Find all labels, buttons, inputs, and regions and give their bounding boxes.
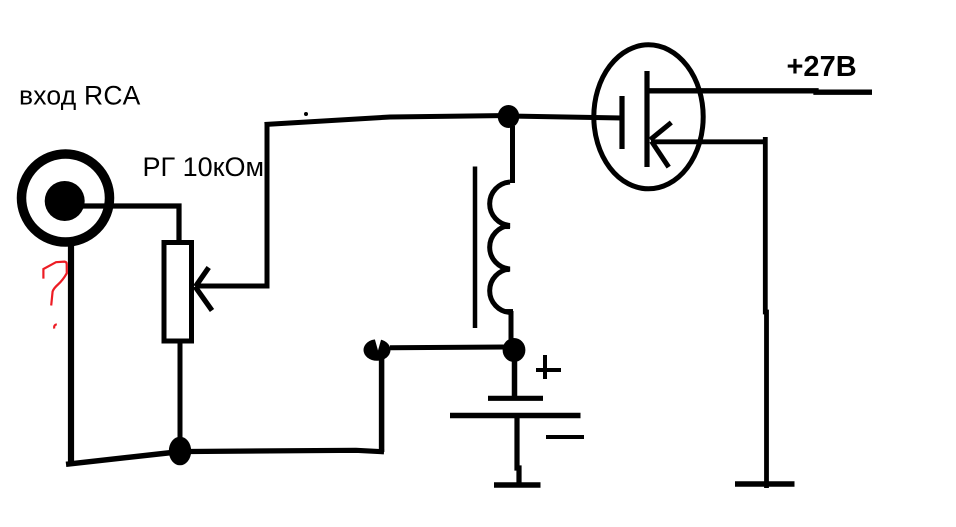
wire bottom left sloped segment	[66, 453, 172, 465]
ground terminal tick right	[735, 481, 795, 487]
wire battery node to left node	[390, 345, 505, 351]
node junction dot inductor / battery plus	[503, 338, 526, 362]
ground rail bottom	[190, 450, 384, 452]
inductor L1 winding arcs	[490, 182, 510, 313]
wire top rail to junction	[265, 116, 510, 125]
collector rail to +27V	[648, 91, 872, 92]
transistor V1 envelope ellipse	[594, 45, 703, 189]
node junction dot left of battery	[364, 339, 391, 361]
minus sign	[546, 435, 584, 439]
potentiometer R1 wiper arrow upper stroke	[196, 268, 209, 287]
emitter arrow lower stroke	[652, 141, 669, 167]
battery B1 long plate	[450, 413, 581, 419]
potentiometer R1 body	[164, 243, 192, 342]
battery B1 top short plate	[488, 396, 543, 401]
connector J1 RCA center pin	[45, 181, 85, 221]
inductor L1 core bar	[473, 167, 478, 329]
connector J1 RCA jack outer ring	[22, 154, 110, 242]
inductor L1 bottom lead	[509, 311, 514, 340]
inductor L1 winding bottom jog	[505, 309, 513, 314]
plus sign vertical	[543, 355, 547, 379]
node junction dot bottom left (pot ground)	[169, 437, 191, 466]
red question mark dot	[54, 324, 57, 328]
svg-text:РГ 10кОм: РГ 10кОм	[143, 152, 265, 182]
battery B1 negative lead	[517, 418, 519, 487]
potentiometer R1 bottom lead	[178, 341, 183, 440]
emitter horizontal wire	[651, 139, 766, 144]
wire junction to transistor base	[509, 116, 622, 118]
emitter arrow upper stroke	[650, 123, 671, 140]
plus sign horizontal	[536, 368, 561, 372]
battery B1 bottom terminal tick	[494, 482, 541, 488]
potentiometer R1 wiper arrow lower stroke	[195, 287, 212, 311]
wire emitter down to ground	[765, 137, 766, 488]
node junction dot rail / inductor	[498, 105, 520, 128]
svg-text:вход RCA: вход RCA	[19, 81, 141, 111]
wire node down to ground rail	[379, 358, 385, 452]
wire RCA pin to potentiometer top	[80, 206, 179, 241]
transistor V1 base bar	[619, 96, 624, 149]
battery B1 positive lead	[512, 360, 518, 398]
transistor V1 body bar	[644, 71, 649, 167]
inductor L1 winding junction nub lower	[502, 268, 510, 273]
potentiometer R1 wiper wire	[196, 124, 267, 286]
inductor L1 winding junction nub upper	[502, 225, 510, 230]
wire RCA shield down	[68, 245, 74, 464]
inductor L1 top lead	[510, 126, 515, 183]
red question mark	[43, 262, 66, 306]
stray dot above rail	[304, 112, 308, 116]
node notch (white wedge in hand-drawn dot)	[375, 338, 382, 351]
svg-text:+27В: +27В	[787, 51, 857, 83]
